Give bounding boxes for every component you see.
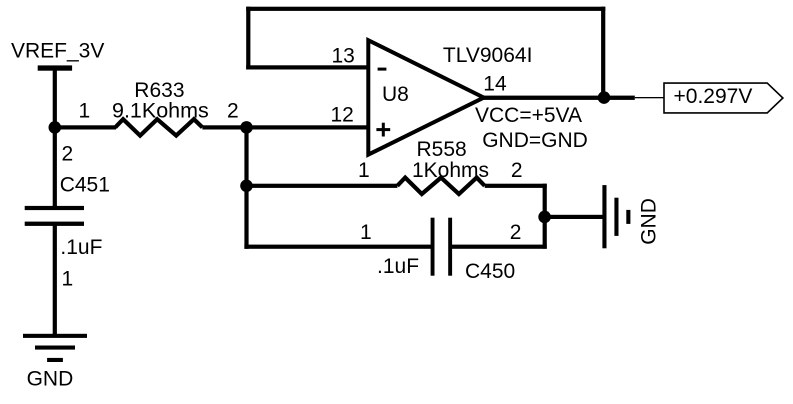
wire mid vertical (inverting net) — [244, 125, 248, 249]
capacitor C450 right plate — [448, 218, 452, 276]
wire C450 row right — [452, 245, 547, 249]
wire R558 pin1 lead — [244, 184, 397, 188]
wire feedback top horizontal — [246, 7, 605, 11]
junction node R633.2/inverting branch — [240, 121, 253, 134]
wire VREF_3V vertical — [53, 67, 57, 208]
svg-text:14: 14 — [483, 73, 507, 96]
op-amp U8 triangle — [368, 40, 484, 154]
wire C451 to GND — [53, 225, 57, 337]
wire to right GND symbol — [545, 215, 604, 219]
net flag +0.297V outline — [664, 83, 783, 113]
svg-text:C451: C451 — [60, 173, 110, 196]
junction node VREF/R633/C451 — [49, 121, 62, 134]
capacitor C451 top plate — [25, 206, 84, 210]
svg-text:GND=GND: GND=GND — [482, 129, 588, 152]
junction node R558 row — [240, 180, 253, 193]
svg-text:1: 1 — [360, 221, 372, 244]
ground symbol GND (bottom left) — [23, 334, 87, 362]
svg-text:2: 2 — [62, 142, 74, 165]
svg-text:2: 2 — [227, 100, 239, 123]
svg-text:12: 12 — [331, 104, 354, 127]
wire R633 pin2 to op-amp pin 12 — [202, 125, 368, 129]
svg-text:GND: GND — [27, 367, 74, 390]
svg-text:9.1Kohms: 9.1Kohms — [112, 99, 209, 123]
wire feedback left vertical — [246, 7, 250, 70]
wire feedback to op-amp pin 13 — [246, 65, 368, 69]
svg-text:1: 1 — [358, 159, 370, 182]
resistor R558 — [397, 178, 484, 194]
svg-text:TLV9064I: TLV9064I — [443, 44, 533, 67]
svg-text:R558: R558 — [417, 138, 467, 161]
junction node output/feedback — [598, 91, 611, 104]
svg-text:1: 1 — [62, 267, 74, 290]
ground symbol GND (right, rotated) — [602, 185, 630, 248]
resistor R633 — [115, 119, 202, 135]
svg-text:1: 1 — [79, 100, 91, 123]
wire thin leader to flag — [635, 97, 664, 98]
svg-text:GND: GND — [637, 198, 660, 245]
op-amp minus input marker — [378, 68, 387, 71]
wire right vertical (R558/C450 to GND) — [543, 184, 547, 249]
power symbol VREF_3V bar — [38, 65, 72, 70]
svg-text:VCC=+5VA: VCC=+5VA — [475, 104, 582, 127]
svg-text:13: 13 — [332, 45, 355, 68]
wire op-amp output — [482, 96, 635, 100]
svg-text:C450: C450 — [465, 260, 515, 283]
svg-text:2: 2 — [511, 159, 523, 182]
op-amp plus input marker — [376, 123, 390, 137]
svg-text:1Kohms: 1Kohms — [412, 159, 489, 182]
junction node GND branch — [538, 211, 551, 224]
capacitor C450 left plate — [431, 218, 435, 276]
svg-text:U8: U8 — [382, 83, 409, 106]
wire R558 pin2 lead — [485, 184, 547, 188]
svg-text:+0.297V: +0.297V — [674, 85, 753, 108]
svg-text:.1uF: .1uF — [60, 236, 102, 259]
svg-text:2: 2 — [510, 221, 522, 244]
capacitor C451 bottom plate — [25, 222, 84, 226]
wire C450 row left — [244, 245, 432, 249]
svg-text:.1uF: .1uF — [377, 255, 419, 278]
wire feedback right vertical — [601, 7, 605, 98]
svg-text:VREF_3V: VREF_3V — [11, 40, 104, 63]
wire R633 pin1 lead — [53, 125, 116, 129]
